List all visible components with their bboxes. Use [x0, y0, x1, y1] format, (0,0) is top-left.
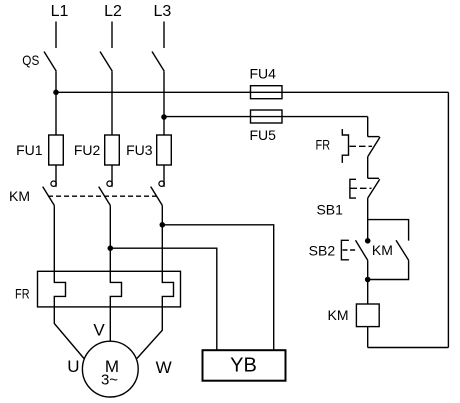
KM mechanical link (dashed)	[48, 195, 157, 197]
fuse FU3	[157, 135, 172, 165]
node L2	[104, 3, 122, 20]
SB1 actuator	[350, 179, 356, 198]
label KM (aux contact)	[372, 242, 393, 258]
label FU5	[249, 127, 276, 143]
label YB	[230, 355, 257, 377]
wire FU5 down to FR contact	[367, 117, 369, 137]
svg-text:KM: KM	[9, 188, 30, 204]
svg-text:FU4: FU4	[249, 65, 276, 81]
pushbutton SB2 NO (blade)	[356, 240, 368, 260]
fuse FU1	[49, 135, 64, 165]
svg-text:FR: FR	[15, 285, 30, 301]
wire SB2 to KM coil	[367, 260, 369, 304]
node L1	[51, 3, 69, 20]
wire SB1 to SB2 (main run)	[367, 198, 369, 241]
svg-text:FU1: FU1	[16, 142, 43, 158]
disconnect switch QS pole 2 (blade)	[100, 52, 112, 72]
disconnect switch QS pole 3 (blade)	[152, 52, 164, 72]
label FU1	[16, 142, 43, 158]
fuse FU2	[105, 135, 120, 165]
wire FR2 to motor V	[109, 307, 111, 341]
svg-text:SB2: SB2	[309, 242, 336, 258]
wire FR contact to SB1	[367, 157, 369, 179]
wire control phase B (through FU5 to control branch)	[164, 116, 368, 118]
label KM (main contacts)	[9, 188, 30, 204]
wire KM2 to FR heater 2	[109, 205, 111, 271]
label KM (coil)	[328, 307, 349, 323]
junction node SB2 top	[365, 238, 371, 244]
wire KM aux bottom	[368, 260, 409, 279]
wire phase3 tap to YB right lead	[162, 225, 273, 350]
label FR (heaters)	[15, 285, 30, 301]
contactor KM main contact 1 (terminal + blade)	[43, 181, 57, 205]
fuse FU5	[251, 110, 283, 123]
label QS	[22, 52, 39, 68]
thermal relay FR box	[38, 271, 181, 307]
wire L1 QS to FU1	[55, 71, 57, 135]
label W (terminal)	[156, 358, 172, 377]
label U (terminal)	[67, 357, 79, 376]
svg-text:FU3: FU3	[126, 142, 153, 158]
wire L3 drop to QS	[163, 22, 165, 49]
wire branch to KM aux (top)	[368, 220, 409, 241]
label FR (contact)	[316, 137, 331, 153]
wire bottom rail	[368, 347, 449, 349]
svg-text:V: V	[93, 321, 105, 340]
FR heater element 2	[110, 271, 121, 307]
FR heater element 1	[54, 271, 65, 307]
junction node on phase 3 (to brake YB)	[160, 222, 166, 228]
label FU3	[126, 142, 153, 158]
svg-text:FU5: FU5	[249, 127, 276, 143]
junction node on L1 (control tap)	[53, 90, 59, 96]
wire L3 QS to FU3	[163, 71, 165, 135]
wire FU3 to KM contact 3	[163, 165, 165, 187]
svg-text:YB: YB	[230, 355, 257, 377]
SB2 actuator	[341, 240, 349, 259]
svg-text:FR: FR	[316, 137, 331, 153]
svg-text:L3: L3	[154, 3, 172, 20]
svg-text:KM: KM	[372, 242, 393, 258]
node L3	[154, 3, 172, 20]
wire FR3 to motor W	[137, 307, 162, 359]
wire FU2 to KM contact 2	[111, 165, 113, 187]
svg-text:3~: 3~	[101, 372, 118, 389]
wire KM1 to FR heater 1	[53, 205, 55, 271]
disconnect switch QS pole 1 (blade)	[44, 52, 56, 72]
junction node on phase 2 (to brake YB)	[108, 245, 114, 251]
svg-text:W: W	[156, 358, 172, 377]
pushbutton SB1 NC (seat + blade)	[368, 178, 380, 198]
contactor KM main contact 3 (terminal + blade)	[151, 181, 165, 205]
svg-text:FU2: FU2	[74, 142, 101, 158]
wire KM3 to FR heater 3	[161, 205, 163, 271]
wire L1 drop to QS	[55, 22, 57, 49]
SB2 actuator dashed link	[343, 249, 357, 251]
FR actuator dashed link	[350, 145, 373, 147]
svg-text:SB1: SB1	[316, 201, 343, 217]
junction node on L3 (control tap)	[161, 114, 167, 120]
FR trip actuator bracket	[342, 129, 348, 163]
svg-text:U: U	[67, 357, 79, 376]
svg-text:KM: KM	[328, 307, 349, 323]
wire FU1 to KM contact 1	[55, 165, 57, 187]
SB1 actuator dashed link	[351, 187, 372, 189]
FR heater element 3	[162, 271, 173, 307]
wire phase2 tap to YB left lead	[110, 248, 217, 350]
wire coil to bottom rail	[367, 327, 369, 348]
label SB1	[316, 201, 343, 217]
svg-text:QS: QS	[22, 52, 39, 68]
motor M 3~	[82, 341, 138, 397]
wire L2 drop to QS	[111, 22, 113, 49]
junction node aux rejoin	[365, 277, 371, 283]
label V (terminal)	[93, 321, 105, 340]
FR NC contact (seat + blade)	[368, 137, 380, 157]
contactor KM auxiliary contact NO (blade)	[396, 240, 409, 260]
wire FR1 to motor U	[54, 307, 84, 359]
wire control phase A (through FU4 to right rail)	[56, 91, 448, 93]
label FU2	[74, 142, 101, 158]
svg-text:L1: L1	[51, 3, 69, 20]
fuse FU4	[251, 86, 283, 99]
wire right rail	[447, 92, 449, 347]
svg-text:L2: L2	[104, 3, 122, 20]
contactor KM main contact 2 (terminal + blade)	[99, 181, 113, 205]
label SB2	[309, 242, 336, 258]
contactor coil KM	[356, 304, 379, 327]
brake YB box	[203, 350, 286, 381]
label FU4	[249, 65, 276, 81]
wire L2 QS to FU2	[111, 71, 113, 135]
